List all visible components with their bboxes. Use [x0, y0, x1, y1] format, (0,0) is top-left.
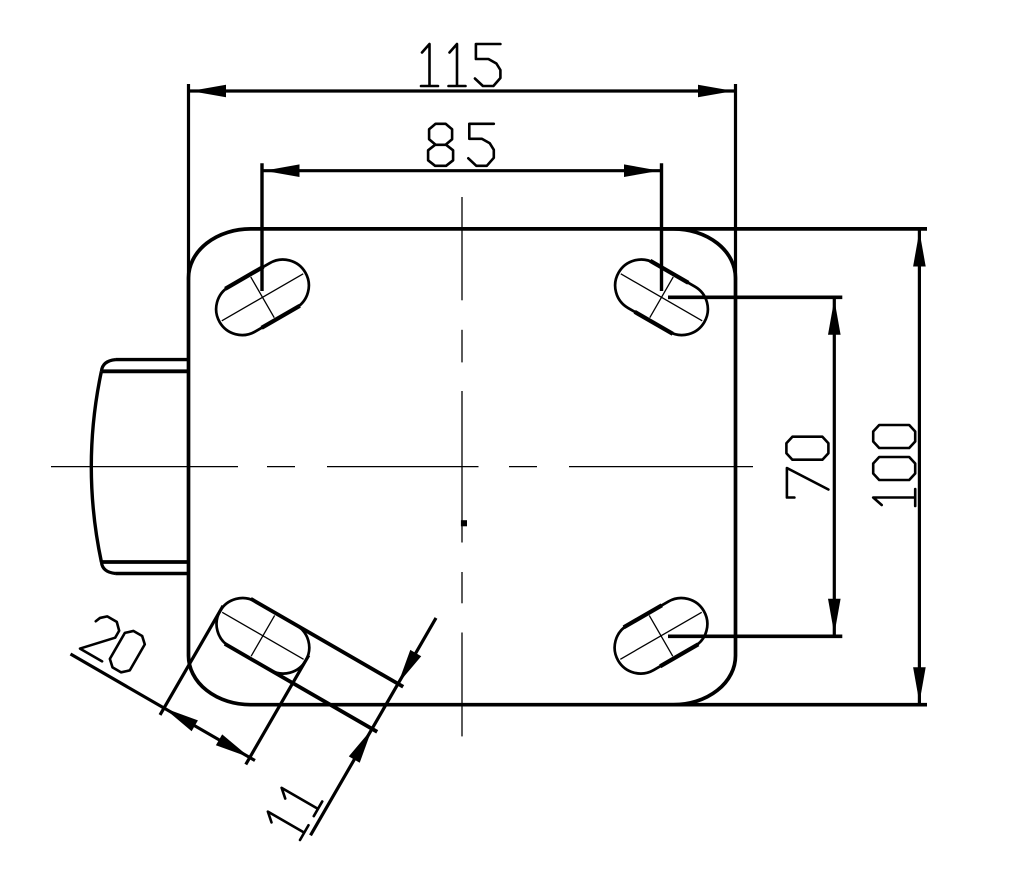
dim 11 dimension line — [311, 618, 437, 835]
center mark dot — [461, 520, 467, 526]
slot hole bottom-left (20 x 11 oblong) — [52, 469, 441, 839]
dim 20 extension lines at slot ends — [160, 606, 223, 715]
dim 115 extension lines — [187, 84, 190, 280]
dim 100 text (rotated) — [873, 425, 915, 506]
wheel sidewall arc — [91, 371, 101, 562]
horizontal centerline — [51, 466, 238, 468]
wheel tread outer bottom line — [116, 572, 190, 575]
vertical centerline — [461, 197, 463, 300]
slot hole bottom-right (20 x 11 oblong) — [605, 589, 717, 684]
dim 11 text (rotated -60deg) — [264, 780, 323, 840]
dim 70 text (rotated) — [786, 437, 828, 498]
wheel top-left corner arc — [101, 360, 115, 372]
dim 70 extension lines from slot centers — [668, 295, 842, 299]
wheel hub top inner line — [101, 369, 189, 373]
wheel bottom-left corner arc — [101, 562, 115, 574]
dim 20 dimension line — [71, 654, 255, 761]
dim 100 dimension line — [918, 229, 921, 705]
plate outline (115 x 100 top plate, rounded corners) — [189, 229, 736, 705]
dim 70 dimension line — [833, 297, 836, 636]
dim 20 text (rotated 30deg) — [80, 612, 148, 675]
dim 100 extension lines (plate edges extended) — [660, 227, 927, 231]
dim 115 text — [421, 44, 500, 86]
dim 11 extension lines along slot edges — [251, 599, 403, 687]
wheel hub bottom inner line — [101, 560, 189, 564]
dim 85 dimension line — [262, 169, 662, 172]
dim 115 dimension line — [189, 89, 736, 92]
slot hole top-left (20 x 11 oblong) — [207, 250, 319, 345]
dim 85 extension lines — [260, 163, 263, 291]
wheel tread outer top line — [116, 358, 190, 361]
dim 85 text — [428, 124, 494, 166]
slot hole top-right (20 x 11 oblong) — [606, 250, 718, 345]
